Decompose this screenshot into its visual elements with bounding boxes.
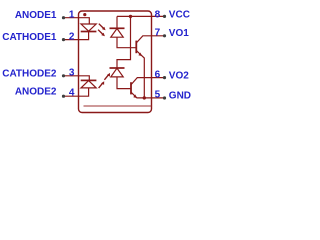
wire PD1 cathode to VCC rail: [116, 16, 118, 28]
light arrow channel2 upper: [104, 73, 110, 80]
node pin8 endpoint: [163, 15, 166, 18]
wire LED D1 cathode to pin 2: [64, 32, 89, 40]
svg-text:GND: GND: [169, 91, 191, 102]
svg-text:7: 7: [155, 27, 161, 38]
wire PD1 anode to Q1 base: [117, 37, 136, 48]
transistor Q1 emitter wire down to GND junction: [137, 51, 145, 98]
node pin7 endpoint: [163, 34, 166, 37]
svg-text:6: 6: [155, 69, 161, 80]
light arrow channel1 lower: [98, 30, 105, 37]
transistor Q1 emitter arrow: [138, 53, 142, 57]
pin 1 marker dot: [83, 13, 86, 16]
svg-text:1: 1: [69, 10, 75, 21]
svg-text:VO2: VO2: [169, 70, 189, 81]
wire pin3 to LED D2 cathode: [64, 76, 90, 80]
node pin6 endpoint: [163, 76, 166, 79]
svg-text:3: 3: [69, 67, 75, 78]
svg-text:5: 5: [155, 89, 161, 100]
transistor Q1 collector wire to pin 7: [137, 36, 165, 43]
node pin1 endpoint: [62, 16, 65, 19]
photodiode PD1 triangle: [111, 29, 123, 38]
transistor Q2 collector wire to pin 6: [131, 78, 164, 85]
junction GND at Q1 emitter / pin 5 wire: [143, 96, 146, 99]
svg-text:VO1: VO1: [169, 28, 189, 39]
svg-text:ANODE2: ANODE2: [15, 87, 57, 98]
wire pin1 to LED D1 anode: [64, 18, 90, 24]
wire VCC rail to pin 8: [117, 15, 165, 17]
svg-text:8: 8: [155, 9, 161, 20]
transistor Q2 emitter wire to pin 5: [131, 92, 164, 98]
node pin2 endpoint: [62, 38, 65, 41]
junction VCC rail: [129, 15, 132, 18]
node pin4 endpoint: [62, 95, 65, 98]
op-amp U1 body (optocoupler IC outline): [79, 11, 152, 113]
transistor Q2 base bar: [130, 82, 132, 94]
light arrow channel1 upper: [99, 24, 106, 31]
light arrow channel2 lower: [99, 81, 105, 88]
transistor Q2 emitter arrow: [133, 94, 137, 98]
svg-text:4: 4: [69, 88, 75, 99]
wire VCC jog down to PD2 cathode: [117, 16, 131, 68]
photodiode PD2 triangle: [111, 68, 123, 77]
internal shield line (thin): [84, 105, 152, 107]
svg-text:2: 2: [69, 32, 75, 43]
transistor Q1 base bar: [135, 41, 137, 54]
LED D2 cathode bar: [81, 79, 97, 81]
svg-text:CATHODE1: CATHODE1: [2, 32, 57, 43]
LED D1 cathode bar: [81, 31, 97, 33]
photodiode PD2 cathode bar: [110, 67, 125, 69]
wire LED D2 anode to pin 4: [64, 88, 89, 96]
wire PD2 anode to Q2 base: [117, 77, 130, 89]
LED D2 triangle: [81, 81, 96, 88]
svg-text:VCC: VCC: [169, 9, 190, 20]
svg-text:ANODE1: ANODE1: [15, 10, 57, 21]
photodiode PD1 cathode bar: [110, 27, 125, 29]
svg-text:CATHODE2: CATHODE2: [2, 68, 57, 79]
LED D1 triangle: [81, 24, 96, 31]
node pin3 endpoint: [62, 74, 65, 77]
node pin5 endpoint: [163, 96, 166, 99]
